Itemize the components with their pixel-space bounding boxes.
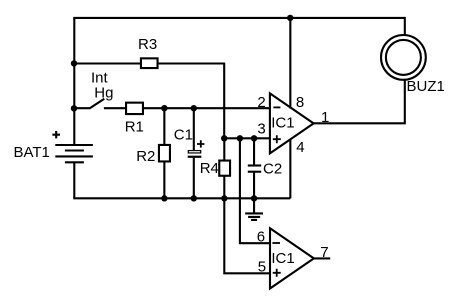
capacitor C2 bottom plate	[248, 171, 261, 173]
buzzer BUZ1 outer circle	[381, 35, 426, 80]
wire pin 4 to ground rail	[289, 139, 291, 198]
resistor R2	[159, 145, 170, 162]
svg-text:Hg: Hg	[94, 84, 113, 101]
op-amp IC1 lower minus marker	[272, 242, 280, 244]
wire pin 8 supply	[289, 18, 291, 109]
battery BAT1 plate short 1	[65, 149, 84, 151]
junction dot R4 bottom	[221, 195, 227, 201]
junction dot pin6 branch	[237, 135, 243, 141]
svg-text:5: 5	[258, 259, 266, 276]
svg-text:BAT1: BAT1	[14, 144, 50, 161]
buzzer BUZ1 inner circle	[386, 40, 421, 75]
wire pin 3 net	[224, 137, 270, 139]
op-amp IC1 upper plus marker	[273, 135, 281, 143]
wire C2 top	[253, 138, 255, 166]
wire top rail down to buzzer	[404, 17, 406, 35]
wire R2 top	[163, 108, 165, 145]
junction dot R2 bottom	[161, 195, 167, 201]
svg-text:C1: C1	[174, 126, 193, 143]
junction dot ground	[251, 195, 257, 201]
resistor R3	[141, 58, 158, 68]
junction dot C2 top	[251, 135, 257, 141]
op-amp IC1 upper minus marker	[273, 106, 280, 108]
wire C1 bottom	[193, 158, 195, 199]
svg-text:R4: R4	[200, 160, 219, 177]
wire R4 bottom	[223, 176, 225, 199]
switch Int Hg blade	[90, 99, 105, 109]
wire C1 top	[193, 108, 195, 151]
svg-text:R3: R3	[138, 36, 157, 53]
svg-text:C2: C2	[263, 161, 282, 178]
capacitor C1 plus sign	[197, 140, 204, 147]
wire battery positive up left rail	[73, 18, 75, 146]
junction dot top rail pin8	[287, 15, 293, 21]
wire top rail	[73, 17, 405, 19]
wire ground rail	[73, 197, 290, 199]
battery BAT1 plate short 2	[65, 161, 84, 163]
battery BAT1 plate long 2	[55, 155, 93, 157]
capacitor C1 positive plate	[188, 151, 200, 153]
junction dot C1 top	[191, 105, 197, 111]
svg-text:3: 3	[257, 120, 265, 137]
wire pin 1 to buzzer	[314, 80, 405, 123]
op-amp IC1 lower triangle	[270, 228, 314, 288]
wire pin 6 from pin3 net	[240, 138, 270, 243]
wire battery negative down	[73, 162, 75, 199]
wire switch contact to R1	[104, 107, 126, 109]
junction dot C1 bottom	[191, 195, 197, 201]
wire C2 bottom	[253, 171, 255, 198]
svg-text:R2: R2	[136, 148, 155, 165]
capacitor C2 top plate	[248, 164, 261, 166]
svg-text:1: 1	[321, 109, 329, 126]
wire R3 left	[74, 62, 141, 64]
svg-text:2: 2	[257, 94, 265, 111]
svg-text:6: 6	[257, 228, 265, 245]
wire R4 top	[223, 138, 225, 160]
svg-text:7: 7	[320, 244, 328, 261]
battery BAT1 plate long top	[55, 144, 93, 146]
junction dot R2 top	[161, 105, 167, 111]
junction dot R3 left	[71, 60, 77, 66]
op-amp IC1 lower plus marker	[273, 269, 281, 277]
wire pin 7 stub	[314, 257, 330, 259]
wire R1 to pin 2	[143, 107, 270, 109]
wire R3 right to pin3 net	[158, 64, 225, 139]
op-amp IC1 upper triangle	[270, 93, 314, 153]
wire R2 bottom	[163, 162, 165, 199]
resistor R4	[219, 161, 230, 176]
junction dot switch pivot	[71, 105, 77, 111]
wire pin 5 from ground rail	[224, 198, 270, 273]
svg-text:4: 4	[296, 139, 304, 156]
svg-text:BUZ1: BUZ1	[407, 78, 445, 95]
svg-text:8: 8	[296, 94, 304, 111]
ground symbol	[245, 198, 263, 220]
resistor R1	[126, 103, 143, 114]
svg-text:IC1: IC1	[271, 114, 294, 131]
svg-text:R1: R1	[125, 119, 144, 136]
capacitor C1 negative plate	[188, 156, 202, 158]
svg-text:IC1: IC1	[271, 250, 294, 267]
battery plus sign	[52, 131, 60, 138]
wire switch pivot stub	[74, 107, 90, 109]
junction dot R4 top	[221, 135, 227, 141]
